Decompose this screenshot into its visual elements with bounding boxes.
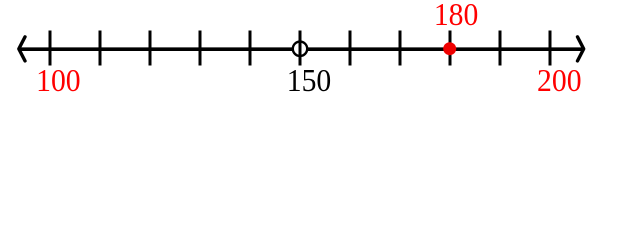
- tick 190: [499, 31, 502, 66]
- open circle at 150: [293, 42, 307, 56]
- svg-text:200: 200: [537, 62, 582, 98]
- tick 100: [49, 31, 52, 66]
- svg-text:100: 100: [36, 62, 81, 98]
- tick 110: [99, 31, 102, 66]
- left arrowhead: [19, 37, 25, 61]
- tick 200: [549, 31, 552, 66]
- number line axis: [19, 47, 584, 51]
- red point at 180: [443, 42, 456, 55]
- tick 180: [449, 31, 452, 66]
- svg-text:150: 150: [287, 62, 332, 98]
- tick 120: [149, 31, 152, 66]
- tick 170: [399, 31, 402, 66]
- right arrowhead: [578, 37, 584, 61]
- tick 160: [349, 31, 352, 66]
- tick 140: [249, 31, 252, 66]
- svg-text:180: 180: [434, 0, 479, 32]
- tick 150 (over circle): [299, 31, 302, 66]
- tick 130: [199, 31, 202, 66]
